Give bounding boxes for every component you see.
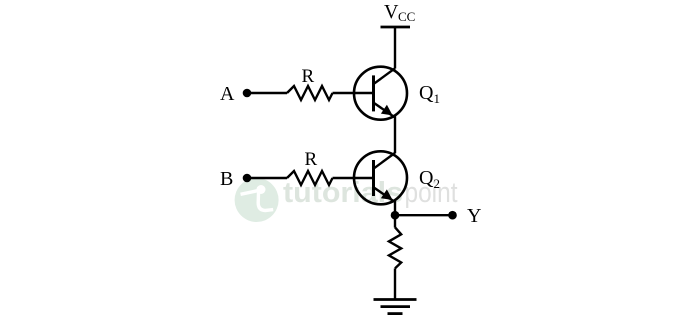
svg-text:Y: Y — [467, 205, 481, 227]
wire Vcc to Q1 collector — [394, 27, 396, 69]
node Y terminal dot — [448, 211, 457, 220]
wire resistor to Q2 base — [333, 177, 373, 179]
wire resistor to Q1 base — [333, 92, 373, 94]
resistor RE (emitter pulldown) — [389, 227, 401, 268]
wire Q1 emitter to Q2 collector — [394, 116, 396, 153]
transistor Q1 — [354, 67, 407, 120]
svg-text:1: 1 — [434, 91, 441, 106]
svg-text:2: 2 — [434, 176, 441, 191]
power rail Vcc bar — [381, 26, 411, 29]
node B terminal dot — [243, 174, 252, 183]
watermark logo circle — [235, 178, 279, 222]
svg-text:B: B — [220, 168, 233, 190]
svg-text:A: A — [220, 83, 235, 105]
ground — [374, 300, 417, 314]
wire resistor to ground — [394, 268, 396, 299]
wire Q2 emitter to node Y — [394, 201, 396, 228]
transistor Q2 — [354, 151, 407, 204]
resistor R (row A) — [287, 86, 333, 100]
svg-text:V: V — [384, 1, 399, 23]
resistor R (row B) — [287, 171, 333, 185]
wire B to resistor — [247, 177, 287, 179]
svg-text:Q: Q — [419, 167, 434, 189]
node A terminal dot — [243, 89, 252, 98]
junction dot node Y — [391, 211, 400, 220]
svg-text:R: R — [305, 149, 318, 170]
svg-text:Q: Q — [419, 82, 434, 104]
svg-text:CC: CC — [398, 9, 415, 24]
wire node to Y terminal — [395, 214, 453, 216]
wire A to resistor — [247, 92, 287, 94]
